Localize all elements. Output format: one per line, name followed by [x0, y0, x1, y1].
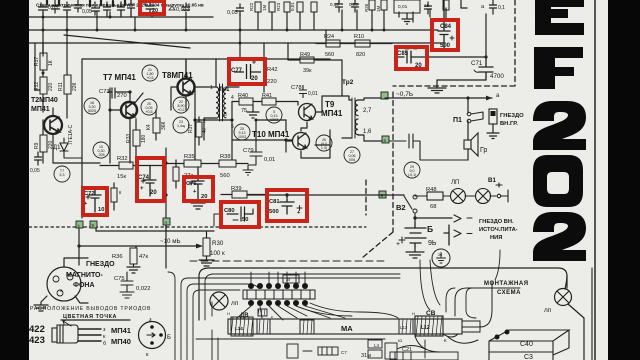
- switch B1: [496, 183, 508, 202]
- resistor top R20: [297, 2, 303, 12]
- ground mid: [247, 105, 259, 118]
- coil wires to rod: [237, 306, 345, 320]
- measure circle 20: [141, 99, 157, 115]
- bottom boxes C21: [390, 352, 458, 360]
- wire battery node: [415, 217, 452, 219]
- svg-text:МП40: МП40: [111, 337, 131, 346]
- svg-text:220: 220: [267, 79, 277, 85]
- wire stubs top right: [300, 0, 467, 43]
- wire C85 to C71 node: [427, 56, 486, 58]
- wire left column: [35, 43, 40, 90]
- capacitor C82: [425, 2, 432, 14]
- jack socket VN GR: [487, 109, 499, 139]
- coil L13: [399, 319, 413, 334]
- resistor R36: [127, 248, 140, 273]
- zg box: [283, 275, 299, 283]
- svg-text:Б: Б: [427, 224, 433, 234]
- underline color dot: [61, 319, 130, 321]
- svg-text:180: 180: [141, 134, 147, 143]
- junction square a2: [381, 92, 388, 99]
- svg-text:лп: лп: [231, 300, 239, 307]
- wire below rod: [196, 338, 385, 340]
- measure circle 26: [316, 135, 332, 151]
- svg-text:С85: С85: [397, 51, 409, 57]
- capacitor C81 electrolytic in red box: [280, 195, 302, 214]
- svg-text:+0,5: +0,5: [145, 110, 152, 114]
- switch P1 contacts: [467, 112, 483, 123]
- resistor R30: [199, 232, 214, 266]
- svg-text:R49: R49: [300, 52, 310, 58]
- red highlight box C72: [83, 188, 107, 215]
- junction square p: [163, 218, 170, 225]
- resistor R39: [221, 191, 267, 198]
- junction dot 0.7v: [466, 96, 469, 99]
- svg-text:+: +: [396, 241, 400, 248]
- coil L12 hatched: [415, 316, 443, 336]
- svg-text:С78: С78: [291, 85, 302, 91]
- measure circle 22: [173, 97, 189, 113]
- svg-text:С40: С40: [520, 341, 533, 348]
- wire top bus 3: [29, 42, 444, 44]
- svg-text:Т9: Т9: [325, 100, 335, 109]
- capacitor C63c: [128, 0, 135, 17]
- capacitor C86: [389, 134, 468, 160]
- capacitor C76 electrolytic in red box: [189, 167, 204, 200]
- red highlight box C84: [432, 20, 458, 50]
- svg-text:0,033: 0,033: [176, 7, 190, 13]
- resistor R12: [40, 77, 47, 94]
- transistor T7: [121, 93, 143, 118]
- svg-text:~0,7Ь: ~0,7Ь: [396, 91, 413, 98]
- wire T8 collector: [185, 59, 187, 78]
- montage board outline: [199, 268, 567, 320]
- svg-text:С75: С75: [114, 276, 125, 282]
- svg-text:ВН.ГР.: ВН.ГР.: [500, 121, 518, 127]
- capacitor C66 in red box: [143, 2, 154, 14]
- svg-text:МП41: МП41: [31, 106, 50, 113]
- transistor T10: [293, 133, 310, 150]
- capacitor C78: [299, 85, 307, 98]
- svg-text:Т7 МП41: Т7 МП41: [103, 73, 136, 82]
- red highlight box C80: [221, 202, 259, 227]
- resistor R10: [348, 40, 392, 47]
- svg-text:лп: лп: [544, 307, 552, 314]
- ground battery: [406, 248, 424, 258]
- svg-text:0,01: 0,01: [308, 91, 318, 97]
- resistor R27: [381, 0, 387, 10]
- svg-text:50: 50: [242, 217, 248, 223]
- resistor R28: [443, 0, 449, 10]
- svg-text:1,4щ: 1,4щ: [177, 124, 185, 128]
- dotted divider line: [29, 226, 366, 228]
- svg-text:L4: L4: [374, 343, 380, 348]
- svg-text:МАГНИТО-: МАГНИТО-: [66, 272, 103, 279]
- component box detector: [394, 0, 420, 13]
- red highlight box C77: [229, 59, 265, 84]
- svg-text:0,05: 0,05: [227, 10, 238, 16]
- svg-text:R32: R32: [117, 156, 128, 162]
- svg-text:+0,2: +0,2: [177, 108, 184, 112]
- svg-text:1,3): 1,3): [321, 146, 327, 150]
- resistor R46: [173, 160, 179, 188]
- wire 0.7v bus to a: [385, 98, 492, 113]
- grounds under socket: [34, 296, 88, 311]
- transistor T8: [178, 79, 195, 96]
- junction dot C81: [285, 193, 288, 196]
- resistor R34: [153, 110, 160, 140]
- measure circle 10: [93, 142, 109, 158]
- svg-text:ГНЕЗДО: ГНЕЗДО: [500, 113, 524, 119]
- svg-text:R12: R12: [34, 82, 40, 91]
- capacitor C77 symbol: [234, 64, 261, 79]
- arrow into R30: [196, 244, 203, 249]
- capacitor C65b: [64, 2, 71, 14]
- svg-text:R24: R24: [324, 34, 334, 40]
- svg-text:з: з: [78, 223, 80, 228]
- resistor R11: [64, 75, 71, 94]
- svg-text:47: 47: [202, 127, 208, 133]
- capacitor C60 left: [35, 152, 42, 165]
- arrow a: [486, 96, 492, 101]
- capacitor C65c: [75, 0, 82, 12]
- capacitor C73: [108, 88, 122, 98]
- svg-text:36К: 36К: [161, 121, 167, 130]
- svg-text:0,01: 0,01: [290, 2, 295, 11]
- coil L1 mid rod: [300, 320, 314, 334]
- svg-text:20: 20: [150, 190, 157, 196]
- montage lamp LP left: [210, 292, 228, 310]
- svg-text:L34: L34: [235, 326, 243, 331]
- svg-text:(-0,1): (-0,1): [408, 173, 417, 177]
- capacitor C83 top right: [490, 0, 497, 14]
- svg-text:С74: С74: [138, 175, 150, 181]
- connector minus: [454, 215, 472, 222]
- magnetofon socket circle: [47, 258, 88, 301]
- resistor R32: [100, 162, 150, 169]
- svg-text:R33: R33: [126, 134, 132, 143]
- junction square v: [382, 136, 389, 143]
- wire top bus 1: [29, 16, 213, 18]
- plug bar symbol: [444, 225, 449, 245]
- amp section frame: [82, 59, 330, 218]
- svg-text:5: 5: [231, 124, 234, 130]
- svg-text:+: +: [140, 186, 144, 192]
- ground under C71: [428, 80, 486, 93]
- resistor R35: [166, 160, 218, 167]
- svg-text:С3: С3: [524, 354, 533, 360]
- svg-text:R42: R42: [267, 67, 278, 73]
- svg-text:22К: 22К: [72, 82, 78, 91]
- montage border right vertical: [591, 268, 593, 360]
- svg-text:ЛП: ЛП: [451, 179, 460, 186]
- svg-text:R41: R41: [262, 93, 272, 99]
- big digit 2 (first): [533, 101, 586, 150]
- svg-text:005: 005: [349, 158, 355, 162]
- svg-text:3: 3: [224, 112, 227, 118]
- trimmer above L15: [258, 309, 267, 316]
- resistor R37: [196, 117, 202, 145]
- svg-text:1,6: 1,6: [363, 129, 372, 135]
- svg-text:0,05: 0,05: [30, 168, 40, 174]
- wire vertical x166: [150, 148, 166, 268]
- svg-text:+0,5: +0,5: [146, 76, 153, 80]
- junction square 9: [90, 221, 97, 228]
- svg-text:10: 10: [98, 207, 104, 213]
- svg-text:С71: С71: [471, 60, 483, 67]
- svg-text:С79: С79: [243, 148, 254, 154]
- svg-text:5,3: 5,3: [60, 173, 65, 177]
- junction square z: [76, 221, 83, 228]
- svg-text:L13: L13: [400, 325, 408, 330]
- svg-text:1: 1: [210, 85, 213, 91]
- svg-text:0,022: 0,022: [136, 286, 151, 292]
- coil L34 hatched: [231, 317, 253, 336]
- svg-text:Н: Н: [412, 311, 415, 316]
- box C3 inner: [489, 351, 553, 353]
- svg-text:2,7: 2,7: [363, 108, 372, 114]
- wire mid bus: [195, 102, 292, 161]
- svg-text:С76: С76: [186, 181, 197, 187]
- svg-text:Н: Н: [227, 311, 230, 316]
- svg-text:2: 2: [203, 119, 206, 125]
- ground left of C80: [191, 200, 221, 226]
- capacitor C67: [183, 3, 190, 10]
- svg-text:П1: П1: [453, 117, 462, 124]
- schematic right border line: [594, 0, 596, 360]
- svg-text:1М: 1М: [376, 5, 381, 12]
- svg-text:R36: R36: [112, 254, 123, 260]
- capacitor C65: [92, 2, 100, 15]
- transistor T2: [44, 116, 62, 134]
- svg-text:1003: 1003: [238, 135, 246, 139]
- box C40 3d: [489, 330, 569, 360]
- measure circle 25: [234, 124, 250, 140]
- svg-text:15: 15: [424, 3, 430, 9]
- red highlight box C76: [184, 177, 213, 201]
- capacitor C65d: [104, 2, 111, 17]
- svg-text:б: б: [103, 341, 106, 347]
- svg-text:R35: R35: [184, 154, 195, 160]
- big letter E (VEF logo): [535, 0, 584, 35]
- montage inner trace top: [205, 274, 400, 320]
- resistor top R21: [311, 2, 317, 12]
- measure circle 23: [173, 117, 189, 133]
- switch contacts top: [248, 283, 308, 306]
- svg-text:В1: В1: [488, 177, 496, 184]
- svg-text:РАСПОЛОЖЕНИЕ ВЫВОДОВ ТРИОДОВ: РАСПОЛОЖЕНИЕ ВЫВОДОВ ТРИОДОВ: [30, 306, 151, 312]
- svg-text:220: 220: [48, 82, 54, 91]
- svg-text:0,01: 0,01: [398, 4, 408, 10]
- band switch bar: [243, 290, 315, 299]
- wire diagonal feed: [64, 35, 190, 48]
- svg-text:31м: 31м: [361, 353, 371, 359]
- svg-text:С81: С81: [269, 199, 280, 205]
- svg-text:Д1: Д1: [53, 145, 61, 151]
- svg-text:0,01: 0,01: [264, 157, 275, 163]
- svg-text:1203: 1203: [270, 118, 278, 122]
- ferrite rod MA: [228, 319, 480, 334]
- junction dot gnezdo: [77, 244, 80, 247]
- coil L15: [257, 319, 270, 334]
- measure circle 5: [266, 107, 282, 123]
- svg-text:R26: R26: [364, 3, 369, 12]
- switch B2: [404, 195, 417, 222]
- capacitor C84 electrolytic in red box: [438, 0, 454, 50]
- svg-text:Тр2: Тр2: [342, 79, 354, 86]
- svg-text:100 к: 100 к: [210, 250, 225, 257]
- svg-text:423: 423: [29, 335, 45, 346]
- ground under C76: [191, 200, 205, 209]
- capacitor C80 in red box: [227, 207, 253, 221]
- montage lamp LP right: [555, 276, 585, 360]
- capacitor C74 electrolytic in red box: [141, 166, 156, 197]
- resistor R24: [316, 40, 348, 47]
- big digit 2 (second): [533, 212, 586, 261]
- wire T8 region: [171, 60, 186, 110]
- svg-text:68: 68: [430, 204, 436, 210]
- svg-text:20: 20: [251, 76, 258, 82]
- capacitor C72 electrolytic in red box: [86, 188, 101, 212]
- svg-text:1К: 1К: [48, 60, 54, 66]
- montage right curves: [446, 288, 476, 318]
- svg-text:ФОНА: ФОНА: [73, 282, 95, 289]
- svg-text:С7: С7: [341, 350, 347, 355]
- wire T7 connections: [110, 88, 130, 163]
- red highlight box C81: [267, 190, 307, 221]
- capacitor C63b: [118, 2, 125, 17]
- svg-text:R10: R10: [354, 34, 364, 40]
- svg-text:К: К: [444, 338, 447, 343]
- svg-text:1М: 1М: [262, 4, 267, 11]
- svg-text:30: 30: [438, 252, 443, 257]
- dashed border right: [362, 0, 515, 258]
- bottom small boxes L4 k1: [368, 340, 425, 359]
- red highlight box C74: [137, 158, 164, 201]
- svg-text:ЦВЕТНАЯ ТОЧКА: ЦВЕТНАЯ ТОЧКА: [63, 314, 117, 320]
- junction dots bus: [42, 16, 386, 197]
- speaker Gr: [464, 121, 478, 160]
- transistor T9: [299, 104, 316, 121]
- connector plus: [454, 230, 472, 237]
- battery B: [399, 222, 426, 248]
- svg-text:0,1: 0,1: [498, 5, 505, 11]
- svg-text:МА: МА: [341, 324, 353, 333]
- svg-text:ДВ: ДВ: [240, 313, 249, 319]
- right black bar: [608, 0, 640, 360]
- transformer Tr1: [195, 59, 239, 160]
- measure circle t7: [54, 166, 70, 182]
- svg-text:L12: L12: [421, 325, 430, 331]
- measure circle 30 ground: [432, 249, 450, 267]
- transistor package drawing: [52, 320, 101, 343]
- wire T2 emitter to bus: [53, 108, 100, 163]
- capacitor C75: [120, 272, 134, 298]
- resistor R48: [415, 192, 450, 200]
- svg-text:500: 500: [269, 209, 279, 215]
- measure circle 21: [142, 65, 158, 81]
- ground under detector: [402, 13, 412, 24]
- svg-text:Гр: Гр: [480, 147, 487, 154]
- svg-text:ЗГ: ЗГ: [286, 277, 292, 282]
- resistor R40: [232, 98, 262, 105]
- measure circle 29: [404, 162, 420, 178]
- resistor R22: [255, 2, 261, 12]
- svg-text:НИЯ: НИЯ: [490, 235, 502, 241]
- svg-text:560: 560: [325, 52, 334, 58]
- svg-text:Т8МП41: Т8МП41: [162, 71, 193, 80]
- measure circle 27: [344, 147, 360, 163]
- junction dots left: [42, 72, 45, 75]
- svg-text:75: 75: [241, 108, 247, 114]
- junction dot C71: [484, 55, 487, 58]
- montage curves from battery: [420, 250, 500, 310]
- svg-text:47к: 47к: [139, 254, 148, 260]
- svg-text:R23: R23: [276, 2, 281, 11]
- resistor R38b: [219, 160, 248, 167]
- lamp LP1: [451, 189, 476, 204]
- wire top bus 2: [29, 29, 438, 31]
- svg-text:С72: С72: [84, 191, 95, 197]
- resistor R33: [133, 119, 140, 158]
- resistor R41: [262, 98, 295, 105]
- svg-text:R9: R9: [34, 142, 40, 149]
- capacitor C68: [237, 4, 244, 16]
- resistor R31: [111, 183, 117, 210]
- pinout circle: [139, 322, 166, 349]
- capacitor C69: [336, 0, 343, 12]
- resistor R49: [288, 43, 342, 96]
- resistor R17: [40, 53, 47, 70]
- bottom small boxes C7: [318, 347, 338, 355]
- junction square v2: [379, 191, 386, 198]
- svg-text:С84: С84: [440, 24, 452, 30]
- svg-text:Б: Б: [167, 335, 171, 341]
- svg-text:R39: R39: [231, 186, 242, 192]
- svg-text:R48: R48: [426, 187, 437, 193]
- svg-text:С77: С77: [231, 68, 243, 74]
- svg-text:0,05: 0,05: [48, 5, 58, 11]
- svg-text:ИСТОЧ.ПИТА-: ИСТОЧ.ПИТА-: [479, 227, 518, 233]
- big letter F (VEF logo): [534, 47, 583, 89]
- capacitor C63: [39, 3, 48, 14]
- capacitor C79: [243, 141, 262, 175]
- svg-text:ГНЕЗДО: ГНЕЗДО: [86, 261, 115, 268]
- wire left column verticals: [43, 43, 67, 163]
- svg-text:С73: С73: [99, 89, 110, 95]
- svg-text:4700: 4700: [490, 73, 504, 80]
- svg-text:5025: 5025: [88, 109, 96, 113]
- svg-text:ГНЕЗДО ВН.: ГНЕЗДО ВН.: [479, 219, 514, 225]
- switch contact wires up: [251, 272, 305, 283]
- svg-text:R11: R11: [58, 82, 64, 91]
- svg-text:С21: С21: [402, 347, 412, 353]
- svg-text:R40: R40: [238, 93, 248, 99]
- svg-text:7ГЕ1А-С: 7ГЕ1А-С: [68, 124, 74, 145]
- big digit 0: [533, 155, 583, 207]
- montage trace to SV: [296, 303, 398, 318]
- resistor R9: [40, 135, 47, 152]
- svg-text:9Ь: 9Ь: [428, 240, 437, 247]
- wire to B2: [247, 194, 404, 196]
- measure circle 18: [84, 98, 100, 114]
- svg-text:В2: В2: [396, 203, 406, 212]
- svg-text:270: 270: [117, 93, 127, 99]
- bold cut components top: [47, 0, 125, 6]
- wires T9 T10: [286, 96, 342, 158]
- lamp LP2: [476, 189, 497, 204]
- svg-text:R17: R17: [34, 57, 40, 66]
- capacitor C71: [474, 57, 493, 80]
